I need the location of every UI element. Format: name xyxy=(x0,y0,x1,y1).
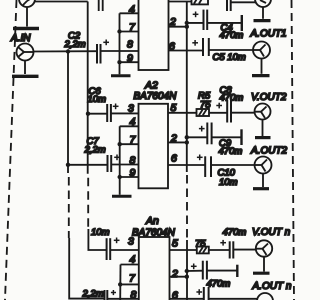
junction dot A bus to C7 xyxy=(66,163,70,167)
polarity plus An pin6 cap xyxy=(196,289,202,295)
svg-text:10m: 10m xyxy=(91,227,110,238)
connector V.OUT n xyxy=(256,240,272,271)
wire pin9 A2 xyxy=(120,176,139,178)
connector A.IN xyxy=(17,44,34,75)
svg-text:8: 8 xyxy=(127,39,133,51)
wire An audio cap to terminal xyxy=(207,270,237,272)
wire pin5 An to R xyxy=(170,249,197,251)
wire C5 to A.OUT1 xyxy=(209,49,253,51)
ground A1 bus xyxy=(111,74,131,77)
node A bus vertical solid upper xyxy=(67,52,69,174)
wire pin2 A2 to bus xyxy=(168,141,187,143)
wire V.IN to V bus xyxy=(35,1,88,3)
wire C3 to V.OUT1 xyxy=(231,1,256,3)
junction dot pin7 A1 xyxy=(117,29,121,33)
svg-text:BA7604N: BA7604N xyxy=(134,91,178,102)
wire pin4 An xyxy=(121,264,139,266)
capacitor C4 xyxy=(204,10,208,30)
polarity plus C2 xyxy=(103,40,109,46)
svg-text:2: 2 xyxy=(171,268,178,280)
wire pin7 An xyxy=(120,283,139,285)
wire pin6 A2 to C10 xyxy=(168,164,205,166)
capacitor C 470m An video xyxy=(230,241,234,258)
wire output bus dashed section xyxy=(186,175,188,240)
wire C2 to pin8 A1 xyxy=(101,50,139,52)
wire C10 to A.OUT2 xyxy=(211,164,255,166)
svg-text:10m: 10m xyxy=(219,177,238,188)
svg-text:C5 10m: C5 10m xyxy=(213,52,246,63)
polarity plus C6 xyxy=(113,104,119,110)
wire pin4 A1 xyxy=(120,12,139,14)
terminal bar C9 xyxy=(240,129,242,145)
wire C4 branch xyxy=(187,22,204,24)
wire pin5 A1 to R1 xyxy=(169,1,193,3)
wire pin2 An to bus xyxy=(170,276,187,278)
wire V bus to C6 xyxy=(88,113,107,115)
wire C6 to pin3 A2 xyxy=(111,112,139,114)
ground A.OUT1 xyxy=(252,74,270,77)
op-amp U An box xyxy=(139,237,170,300)
polarity plus An video cap xyxy=(220,240,226,246)
polarity plus C7 xyxy=(114,155,120,161)
svg-text:A.OUT2: A.OUT2 xyxy=(250,145,288,156)
svg-text:7: 7 xyxy=(129,272,136,284)
svg-text:2,2m: 2,2m xyxy=(82,288,104,299)
capacitor C5 xyxy=(203,38,209,56)
capacitor C 10m An xyxy=(107,238,111,260)
junction dot pin9 A2 xyxy=(118,175,122,179)
svg-text:3: 3 xyxy=(128,103,134,115)
wire pin7 A2 xyxy=(120,143,139,145)
svg-text:A.OUT1: A.OUT1 xyxy=(250,29,287,40)
resistor R5 xyxy=(197,109,210,116)
capacitor C 2,2m An xyxy=(105,290,108,300)
ground V.OUT1 xyxy=(254,19,271,22)
capacitor C3 plate stubs (cut at top) xyxy=(227,0,231,11)
polarity plus C10 xyxy=(197,155,203,161)
polarity plus An pin8 cap xyxy=(111,290,116,295)
ground V.OUT2 xyxy=(255,136,271,139)
capacitor C6 xyxy=(107,104,111,122)
wire pin7 A1 xyxy=(120,31,139,33)
wire An 2,2m cap to pin8 xyxy=(107,298,139,300)
junction dot pin2 An xyxy=(185,275,189,279)
wire pin2 A1 to bus xyxy=(169,26,187,28)
wire left bus An xyxy=(119,265,121,300)
capacitor C 10m An audio out xyxy=(204,287,209,300)
wire R5 to C8 xyxy=(209,112,227,114)
wire output bus lower solid xyxy=(186,240,188,300)
svg-text:470m: 470m xyxy=(220,30,244,41)
wire pin4 A2 xyxy=(120,125,139,127)
wire An cap to V.OUTn xyxy=(233,249,256,251)
wire An R to cap xyxy=(209,249,230,251)
wire C8 to V.OUT2 xyxy=(231,112,255,114)
junction dot C4 branch xyxy=(185,21,189,25)
svg-text:V.OUT n: V.OUT n xyxy=(252,227,291,238)
junction dot pin9 A1 xyxy=(117,60,121,64)
svg-text:3: 3 xyxy=(128,236,134,248)
connector V.OUT1 (cut at top) xyxy=(255,0,271,19)
junction dot pin7 An xyxy=(118,282,122,286)
wire A bus to C7 xyxy=(68,164,107,166)
terminal bar An audio xyxy=(236,265,238,277)
junction dot An audio cap branch xyxy=(185,269,189,273)
ground V.OUT n xyxy=(253,272,270,275)
wire C4 to terminal xyxy=(207,22,242,24)
wire A bus dashed section xyxy=(68,177,70,238)
border dashed right xyxy=(292,0,295,300)
ground A.OUT2 xyxy=(253,187,269,190)
svg-text:2,2m: 2,2m xyxy=(84,144,106,155)
svg-text:470m: 470m xyxy=(207,279,231,290)
connector A.OUT n (cut at bottom) xyxy=(257,293,273,300)
capacitor C9 xyxy=(207,123,211,145)
polarity plus C4 xyxy=(193,12,199,18)
wire V bus dashed section xyxy=(87,178,89,229)
connector A.OUT2 xyxy=(255,157,272,188)
wire left bus A1 xyxy=(119,13,121,74)
op-amp U A1 box xyxy=(139,0,169,70)
connector V.OUT2 xyxy=(255,104,271,137)
wire C9 branch xyxy=(187,136,207,138)
polarity plus An audio cap xyxy=(191,264,197,270)
resistor R1 (cut at top) xyxy=(192,0,209,4)
node output bus vertical solid upper xyxy=(186,2,188,173)
svg-text:V.OUT2: V.OUT2 xyxy=(251,92,287,103)
svg-text:2,2m: 2,2m xyxy=(64,39,86,50)
polarity plus C9 xyxy=(199,126,205,132)
svg-text:A.IN: A.IN xyxy=(10,33,31,44)
wire pin6 An to C10n xyxy=(170,298,204,300)
capacitor C8 xyxy=(227,100,231,123)
node V bus vertical (solid upper) xyxy=(87,2,89,174)
wire A bus lower solid to An input cap xyxy=(69,238,104,299)
ground A2 bus xyxy=(112,195,132,198)
capacitor C7 xyxy=(108,155,112,172)
svg-text:6: 6 xyxy=(171,152,177,164)
connector V.IN (cut at top) xyxy=(19,0,35,27)
wire V bus lower solid to An xyxy=(88,229,106,250)
junction dot pin2 A1 xyxy=(185,25,189,29)
terminal bar C4 xyxy=(241,15,243,31)
svg-text:470m: 470m xyxy=(223,227,247,238)
wire left bus A2 xyxy=(119,126,121,194)
svg-text:470m: 470m xyxy=(219,146,243,157)
junction dot pin7 A2 xyxy=(118,142,122,146)
polarity plus An pin3 cap xyxy=(114,238,120,244)
border dashed left xyxy=(5,0,17,300)
capacitor C 470m An audio xyxy=(203,261,207,280)
junction dot pin2 A2 xyxy=(185,140,189,144)
capacitor C2 xyxy=(97,44,101,64)
svg-text:A.OUT n: A.OUT n xyxy=(252,281,292,292)
capacitor C1 plate stubs (cut at top) xyxy=(99,0,103,11)
wire pin5 A2 to R5 xyxy=(168,112,197,114)
svg-text:A2: A2 xyxy=(144,79,158,91)
wire C9 to terminal xyxy=(212,136,242,138)
junction dot A bus xyxy=(66,49,70,53)
junction dot V bus to C6 xyxy=(86,112,90,116)
wire C7 to pin8 A2 xyxy=(111,164,138,166)
wire An cap to pin3 xyxy=(110,249,139,251)
wire pin9 A1 xyxy=(120,61,139,63)
op-amp U A2 box xyxy=(139,104,169,189)
svg-text:5: 5 xyxy=(172,237,178,249)
ground for V.IN xyxy=(13,27,39,30)
wire An audio cap branch xyxy=(187,270,203,272)
svg-text:An: An xyxy=(145,215,159,227)
ground for A.IN xyxy=(12,75,39,78)
wire pin6 A1 to C5 xyxy=(169,50,204,52)
resistor R An xyxy=(197,247,209,254)
polarity plus C5 xyxy=(192,40,198,46)
polarity plus C8 xyxy=(216,103,222,109)
capacitor C10 xyxy=(205,156,211,177)
junction dot C9 branch xyxy=(185,135,189,139)
connector A.OUT1 xyxy=(253,42,270,74)
wire An C10n to A.OUTn xyxy=(209,298,258,300)
svg-text:10m: 10m xyxy=(88,94,107,105)
wire A.IN to C2 xyxy=(34,50,97,52)
